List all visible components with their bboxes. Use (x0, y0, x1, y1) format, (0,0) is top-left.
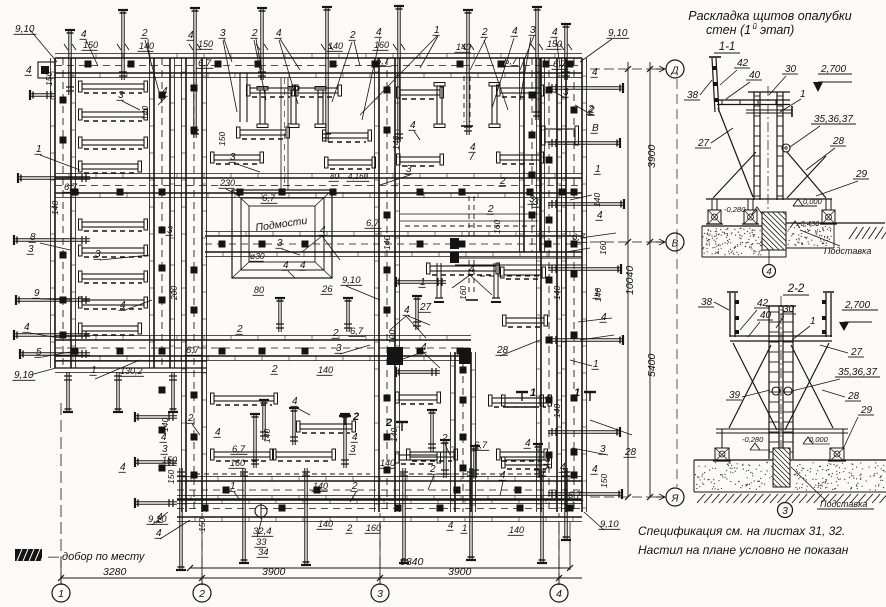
axis circle 2 (193, 584, 211, 602)
wall ties: black squares along upper interior wall (72, 189, 566, 196)
svg-text:34: 34 (258, 547, 269, 558)
section mark 1 at 590,392 (574, 387, 596, 401)
svg-text:4: 4 (376, 27, 382, 38)
formwork panel lower-middle room d (297, 421, 356, 433)
hanging tie pin lower-left x=68 (63, 372, 73, 412)
svg-text:140: 140 (389, 428, 399, 442)
dimension line 3280/3900/3900 row (61, 577, 582, 579)
svg-text:4: 4 (421, 342, 427, 353)
svg-text:4: 4 (215, 427, 221, 438)
svg-text:4: 4 (560, 462, 566, 473)
svg-text:2: 2 (481, 27, 488, 38)
svg-text:140: 140 (313, 481, 328, 491)
svg-text:28: 28 (832, 136, 845, 147)
wall ties: black squares along bottom wall lower leaf (202, 505, 574, 512)
svg-text:140: 140 (50, 201, 60, 215)
svg-text:160: 160 (492, 220, 502, 234)
svg-text:140: 140 (382, 236, 392, 250)
axis arrow to circle D (656, 68, 665, 70)
wall: upper interior horizontal, plan (55, 174, 582, 198)
svg-text:38: 38 (701, 297, 713, 308)
svg-text:2-2: 2-2 (787, 283, 805, 295)
svg-text:1: 1 (574, 387, 580, 399)
svg-text:2: 2 (271, 364, 278, 375)
detail 1-1: right post ladder (777, 92, 783, 200)
wall ties: black squares along right outer leaf (571, 107, 578, 479)
svg-text:4: 4 (597, 210, 603, 221)
interior pin x=280 (275, 298, 285, 332)
svg-text:1-1: 1-1 (719, 41, 736, 53)
svg-text:100: 100 (387, 330, 397, 344)
formwork panel top-middle room e (211, 152, 264, 164)
formwork panel top-right room b (497, 85, 544, 97)
wall ties: black squares along left interior wall (159, 92, 166, 472)
wall: middle interior second leaf (lower-left outer) (55, 360, 207, 362)
tie pin bottom wall x=471 (466, 468, 476, 560)
detail 2-2: centerline (780, 296, 782, 470)
svg-text:3900: 3900 (262, 566, 286, 578)
detail 1-1: hatched pit under post (762, 212, 786, 250)
detail 2-2: top horizontal waler bars (730, 335, 832, 337)
wall: interior vertical right-center (451, 352, 476, 512)
long leader lines from top labels into rooms (145, 40, 162, 103)
vertical formwork panel top-middle v2 (288, 87, 299, 128)
svg-text:2: 2 (385, 417, 392, 429)
wall: bottom outer outer leaf, plan (177, 496, 582, 522)
svg-text:2: 2 (346, 523, 353, 534)
detail 1-1: right diagonal strut (pos 28) (787, 152, 826, 198)
axis dashed line row D (590, 68, 664, 70)
svg-text:29: 29 (855, 169, 868, 180)
svg-text:3: 3 (406, 164, 412, 175)
svg-text:39: 39 (729, 390, 741, 401)
svg-text:9,10: 9,10 (148, 514, 167, 525)
svg-text:140: 140 (509, 525, 524, 535)
wall: axis-3 vertical (375, 58, 400, 512)
vertical formwork panel top-middle v1 (257, 87, 268, 128)
wall: axis V second leaf lines (455, 257, 582, 259)
wall: right outer leaf vertical (axis 4) (562, 58, 587, 512)
svg-text:3900: 3900 (448, 566, 472, 578)
svg-text:8: 8 (30, 232, 36, 243)
svg-text:4: 4 (162, 86, 168, 97)
svg-text:4: 4 (525, 438, 531, 449)
svg-text:1: 1 (800, 89, 806, 100)
svg-text:2: 2 (251, 28, 258, 39)
scaffold platform (Podmosti) nested rectangles (232, 190, 332, 278)
detail 2-2: left X brace (733, 343, 777, 430)
svg-text:Спецификация см. на листах: Спецификация см. на листах 31, 32. (638, 524, 845, 538)
svg-text:140: 140 (318, 365, 333, 375)
tie pin top wall x=537 (532, 7, 542, 120)
circle symbol below bottom wall (255, 505, 267, 517)
detail 1-1: left formwork panel (pos 38) (709, 57, 721, 112)
hanging dashed pin below axis-V wall x=471 (468, 260, 470, 296)
tie pin bottom wall x=181 (176, 468, 186, 570)
svg-text:35,36,37: 35,36,37 (814, 114, 853, 125)
svg-text:3: 3 (95, 249, 101, 260)
svg-text:3900: 3900 (646, 144, 658, 168)
svg-text:9,10: 9,10 (608, 28, 628, 39)
svg-text:4: 4 (556, 588, 562, 600)
svg-text:140: 140 (318, 519, 333, 529)
svg-text:4,160: 4,160 (348, 172, 369, 181)
svg-text:1: 1 (420, 277, 426, 288)
detail 2-2: clamp circles (772, 387, 780, 395)
svg-text:3: 3 (377, 588, 383, 600)
leader lines (30, 30, 57, 62)
svg-text:стен (1: стен (1 (706, 23, 751, 37)
svg-text:3: 3 (782, 506, 788, 517)
svg-text:140: 140 (592, 193, 602, 207)
formwork panel row, left upper room r4 (79, 161, 142, 173)
svg-text:150: 150 (162, 455, 177, 465)
svg-text:— добор по месту: — добор по месту (47, 551, 146, 563)
tie pin top wall x=399 (394, 6, 404, 142)
svg-text:6,7: 6,7 (350, 326, 364, 337)
svg-text:130,2: 130,2 (120, 366, 143, 376)
svg-text:28: 28 (624, 447, 637, 458)
svg-text:27: 27 (697, 138, 710, 149)
interior pin x=345 (340, 414, 350, 468)
svg-text:140: 140 (593, 288, 603, 302)
formwork panel row, left lower room r1 (79, 219, 148, 231)
svg-text:4: 4 (276, 28, 282, 39)
svg-text:-0,280: -0,280 (724, 205, 746, 214)
wall ties: black squares along axis-2 wall (191, 85, 198, 479)
formwork panel lower-middle room a (211, 393, 278, 405)
panel right of axis-3 wall upper (396, 392, 441, 404)
formwork panel top-right room a (397, 87, 444, 99)
svg-text:3: 3 (28, 244, 34, 255)
panel right of axis-3 wall lower (396, 452, 441, 464)
svg-text:Подставка: Подставка (824, 246, 871, 256)
tie pin top wall x=70 (65, 30, 75, 95)
svg-text:1: 1 (58, 588, 64, 600)
svg-text:38: 38 (687, 90, 699, 101)
svg-text:3: 3 (230, 152, 236, 163)
wall ties: black squares along bottom wall upper leaf (223, 487, 522, 494)
svg-text:4: 4 (283, 260, 289, 271)
svg-text:2: 2 (349, 30, 356, 41)
wall stub below top wall x=240 (239, 73, 241, 122)
svg-text:4: 4 (410, 120, 416, 131)
tie pin left wall y=335 (14, 330, 90, 340)
tie pin left wall y=354 (20, 349, 90, 359)
svg-text:3280: 3280 (103, 566, 127, 578)
svg-text:30: 30 (785, 64, 797, 75)
detail 1-1: foundation stipple band (702, 223, 885, 257)
tie pin axis-2 wall left y=462 (135, 457, 177, 467)
svg-text:4: 4 (352, 432, 358, 443)
detail 1-1: jack stands with screws (706, 199, 723, 224)
dashed pair above axis-V wall x=471 (468, 196, 470, 236)
tie pin top wall x=566 (561, 24, 571, 80)
svg-text:6,7: 6,7 (262, 193, 276, 204)
interior pin x=417 (412, 296, 422, 330)
axis circle 1 (52, 584, 70, 602)
tie pin right wall y=143 (548, 138, 620, 148)
svg-text:3: 3 (545, 454, 551, 465)
tie pin left wall y=178 (18, 173, 90, 183)
svg-text:Раскладка щитов опалубки: Раскладка щитов опалубки (688, 9, 852, 23)
tie pin right wall y=88 (548, 83, 623, 93)
svg-text:3: 3 (167, 225, 173, 236)
detail 1-1: left post ladder (754, 92, 760, 200)
svg-text:160: 160 (366, 523, 381, 533)
svg-text:9,10: 9,10 (342, 275, 361, 286)
formwork panel right-center room a (427, 263, 500, 275)
svg-text:6,7: 6,7 (568, 490, 582, 501)
tie pin left wall y=300 (16, 295, 90, 305)
svg-text:140: 140 (262, 429, 272, 443)
formwork panel lower-right room a (489, 395, 544, 407)
svg-text:3: 3 (336, 343, 342, 354)
small corner box at top-left of plan (38, 62, 55, 78)
svg-text:27: 27 (419, 302, 432, 313)
dashed formwork row below axis-V wall right part (480, 275, 540, 277)
svg-text:4: 4 (81, 29, 87, 40)
interior pin x=294 (289, 408, 299, 445)
svg-text:6,7: 6,7 (376, 56, 390, 67)
svg-text:4: 4 (552, 27, 558, 38)
panel left-pointing lower right room a (502, 395, 552, 407)
svg-text:26: 26 (321, 284, 333, 295)
section mark 2 at 402,422 (385, 417, 408, 431)
vertical formwork panel top-middle v3 (315, 87, 326, 128)
detail 2-2: foundation stipple band (694, 460, 886, 492)
formwork panel row, left lower room r3 (79, 271, 148, 283)
detail 1-1: clamp circles (pos 35,36,37) (782, 144, 790, 152)
wall: left interior vertical (150, 58, 175, 368)
svg-text:6,7: 6,7 (474, 440, 488, 451)
dimension line 9840 row (190, 567, 570, 569)
svg-text:3: 3 (118, 90, 124, 101)
svg-text:1: 1 (593, 359, 599, 370)
svg-text:5: 5 (36, 347, 42, 358)
wall ties: black squares along axis-3 wall (384, 87, 391, 474)
svg-text:ø30: ø30 (250, 251, 265, 261)
svg-text:27: 27 (850, 347, 863, 358)
svg-text:29: 29 (860, 405, 873, 416)
svg-text:4: 4 (500, 470, 506, 481)
svg-text:4: 4 (320, 225, 326, 236)
axis dashed line row Ya (590, 496, 664, 498)
double black squares at axis-V wall x=454 (450, 238, 459, 249)
detail 1-1: waler platform (pos 40/42) (717, 100, 790, 105)
svg-text:32,4: 32,4 (253, 526, 272, 537)
tie pin bottom wall x=542 (537, 468, 547, 563)
svg-text:4: 4 (188, 30, 194, 41)
svg-text:30: 30 (783, 304, 795, 315)
svg-text:0,000: 0,000 (803, 197, 823, 206)
svg-text:3: 3 (162, 444, 168, 455)
thin horizontal lines upper right room band (400, 213, 538, 215)
interior pin x=348 (343, 298, 353, 332)
svg-text:6,7: 6,7 (198, 58, 212, 69)
svg-text:4: 4 (601, 312, 607, 323)
detail 2-2: ground hatch marks below band (697, 494, 886, 503)
interior pin x=264 (259, 400, 269, 440)
tie pin bottom wall x=566 (561, 468, 571, 540)
svg-text:4: 4 (24, 322, 30, 333)
axis dashed line 2 (201, 513, 203, 585)
tie pin top wall x=262 (257, 8, 267, 80)
tie pin axis-2 wall left y=503 (135, 498, 177, 508)
svg-text:150: 150 (44, 72, 54, 86)
detail 2-2: bottom chord bars (716, 428, 848, 430)
formwork panel row, left lower room r4 (79, 297, 148, 309)
wall: interior vertical upper-right (520, 58, 545, 252)
svg-text:3: 3 (220, 28, 226, 39)
svg-text:Настил на плане условно не: Настил на плане условно не показан (638, 543, 849, 557)
wall ties: black squares along top wall (85, 61, 574, 68)
interior pin x=538 (533, 444, 543, 478)
tie pin bottom wall x=306 (301, 468, 311, 565)
svg-text:6,7: 6,7 (186, 345, 200, 356)
tie pin top wall x=468 (463, 10, 473, 135)
hanging dashed pin below top wall x=464 (463, 76, 465, 122)
tie pin top wall x=195 (190, 8, 200, 138)
formwork panel top-middle room a (247, 85, 296, 97)
formwork panel row, left upper room r3 (79, 137, 148, 149)
svg-text:4: 4 (512, 26, 518, 37)
svg-text:2: 2 (236, 324, 243, 335)
svg-text:6,7: 6,7 (504, 56, 518, 67)
formwork panel row, left lower room r2 (79, 245, 148, 257)
svg-text:9,10: 9,10 (15, 24, 35, 35)
svg-text:9840: 9840 (400, 556, 424, 568)
legend: dobor po mestu swatch (15, 549, 46, 561)
formwork panel top-middle room f (325, 157, 376, 169)
svg-text:160: 160 (374, 40, 389, 50)
svg-text:80: 80 (330, 172, 339, 181)
svg-text:этап): этап) (760, 23, 794, 37)
svg-text:160: 160 (458, 286, 468, 300)
detail 1-1: ground hatch right of foundation (849, 227, 886, 239)
svg-text:1: 1 (91, 365, 97, 376)
svg-text:1: 1 (595, 164, 601, 175)
svg-text:2: 2 (429, 464, 436, 475)
axis circle Ya (bottom right of plan) (666, 488, 684, 506)
svg-text:9,10: 9,10 (14, 370, 34, 381)
svg-text:й: й (753, 22, 758, 31)
svg-text:4: 4 (470, 142, 476, 153)
detail 1-1: centerline (767, 86, 769, 214)
svg-text:2: 2 (187, 413, 194, 424)
svg-text:1: 1 (36, 144, 42, 155)
formwork panel right-center room c (503, 315, 548, 327)
svg-text:140: 140 (160, 418, 170, 432)
svg-text:3: 3 (563, 87, 569, 98)
svg-text:4: 4 (161, 432, 167, 443)
interior pin x=432 (427, 410, 437, 452)
detail 2-2: elevation marks (750, 443, 760, 450)
formwork panel lower-right room b (497, 449, 548, 461)
svg-text:2,700: 2,700 (820, 64, 846, 75)
svg-text:1: 1 (434, 25, 440, 36)
wall ties: black squares along interior right-center wall (460, 367, 467, 472)
vertical formwork panel top-right v1 (434, 83, 445, 128)
wall ties: black squares along middle wall (72, 348, 464, 355)
tie pin right wall y=432 (548, 427, 620, 437)
svg-text:5400: 5400 (646, 353, 658, 377)
formwork panel lower-middle room c (273, 449, 336, 461)
axis dashed vertical connecting D and Ya circles (676, 79, 678, 487)
tie pin left wall y=240 (14, 235, 90, 245)
svg-text:2: 2 (352, 411, 359, 423)
svg-text:9: 9 (34, 288, 40, 299)
detail 1-1: circled 4 (763, 265, 776, 278)
axis circle D (top right of plan) (666, 60, 684, 78)
tie pin bottom wall x=404 (399, 468, 409, 563)
vertical formwork panel top-right v2 (489, 83, 500, 128)
svg-text:2: 2 (487, 204, 494, 215)
svg-text:4: 4 (120, 300, 126, 311)
svg-text:4: 4 (26, 65, 32, 76)
svg-text:2,700: 2,700 (844, 300, 870, 311)
svg-text:2: 2 (332, 328, 339, 339)
wall: bottom outer inner leaf (axis Ya), plan (177, 477, 582, 504)
detail 1-1: tie rod through wall (746, 109, 792, 111)
svg-text:4: 4 (448, 520, 453, 531)
wall ties: black squares along left outer wall (60, 97, 67, 339)
svg-text:150: 150 (599, 474, 609, 488)
svg-text:2: 2 (441, 433, 448, 444)
svg-text:35,36,37: 35,36,37 (838, 367, 877, 378)
section mark 1 at 522,392 (516, 387, 536, 401)
svg-text:4: 4 (292, 396, 298, 407)
svg-text:3: 3 (350, 444, 356, 455)
formwork panel top-right room c (497, 152, 544, 164)
svg-text:150: 150 (83, 40, 98, 50)
svg-text:1: 1 (462, 523, 467, 534)
detail 1-1: left diagonal strut (pos 27) (718, 108, 753, 197)
tie pin bottom wall x=244 (239, 468, 249, 563)
panel left-pointing lower right room b (502, 457, 552, 469)
hanging pins below axis-V wall (436, 263, 438, 298)
svg-text:2: 2 (198, 588, 205, 600)
svg-text:140: 140 (391, 136, 401, 150)
svg-text:4: 4 (156, 528, 162, 539)
svg-text:3: 3 (277, 238, 283, 249)
tie pin top wall x=123 (118, 10, 128, 80)
svg-text:140: 140 (552, 404, 562, 418)
wall: top outer (axis D), plan (55, 54, 582, 78)
wall: middle interior horizontal, plan (55, 336, 471, 361)
wall: thin vertical pair in top-middle room (280, 78, 282, 190)
svg-text:80: 80 (254, 285, 264, 295)
svg-text:2: 2 (351, 481, 358, 492)
interior pin x=255 (250, 414, 260, 468)
detail 2-2: hatched pit under post (773, 448, 790, 487)
tie pin left wall y=95 (30, 90, 55, 100)
detail 1-1: base line (706, 198, 832, 200)
wall ties: black squares along upper-right interior wall (529, 92, 536, 219)
wall: right inner leaf vertical (537, 58, 562, 512)
svg-text:1: 1 (530, 387, 536, 399)
right vertical dimension line 3900/5400 (649, 62, 651, 497)
formwork panel top-middle room c (237, 127, 290, 139)
svg-text:4: 4 (766, 267, 771, 278)
detail 2-2: central double post ladder (766, 306, 796, 459)
svg-text:200: 200 (169, 286, 179, 301)
axis circle 3 (371, 584, 389, 602)
svg-text:4: 4 (592, 464, 598, 475)
formwork panel row, left lower room r5 (79, 323, 142, 335)
detail 2-2: left vertical formwork panel (pos 38) (727, 292, 739, 337)
tie pin top wall x=327 (322, 7, 332, 142)
